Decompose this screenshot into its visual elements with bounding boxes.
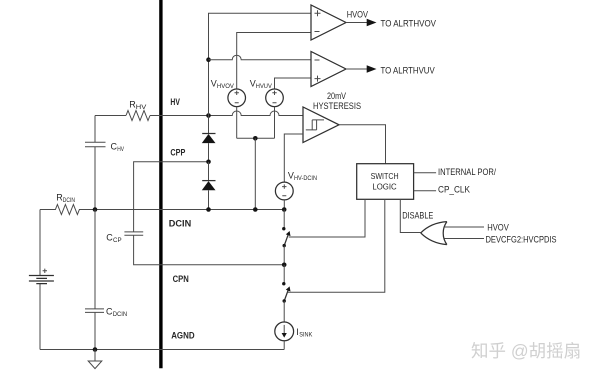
node CPP junction — [206, 160, 211, 165]
node DCIN-left junction — [93, 207, 98, 212]
diode D2 — [208, 162, 210, 181]
battery plus sign — [43, 269, 47, 273]
or-gate U5 — [421, 222, 447, 245]
arrow to ALRTHVUV — [367, 65, 377, 72]
switch S2 — [283, 265, 285, 284]
wire INTERNAL POR output — [414, 172, 437, 174]
resistor RHV — [126, 111, 150, 121]
switch S1 — [283, 210, 285, 229]
wire comp2 plus input — [275, 78, 312, 89]
voltage source VHVUV — [266, 89, 284, 107]
wire AGND rail — [40, 349, 284, 351]
node connector DCIN junction — [253, 207, 258, 212]
wire switch2 control — [288, 199, 385, 292]
node DCIN diode junction — [206, 207, 211, 212]
capacitor CDCIN — [85, 210, 104, 350]
svg-text:HVUV: HVUV — [256, 83, 273, 90]
svg-text:DCIN: DCIN — [169, 219, 192, 230]
wire connector to DCIN — [254, 138, 256, 209]
node CPN junction — [282, 263, 287, 268]
svg-text:DCIN: DCIN — [113, 311, 128, 318]
wire disable — [400, 199, 420, 232]
svg-text:CP_CLK: CP_CLK — [438, 184, 471, 195]
wire VHV-DCIN bottom — [283, 200, 285, 210]
wire hysteresis output — [339, 125, 386, 164]
wire CPP rail — [134, 162, 209, 232]
wire comp1 plus input — [209, 13, 312, 115]
wire ISINK to AGND — [283, 341, 285, 350]
wire comp1 output — [346, 22, 367, 24]
wire CPN rail — [134, 235, 285, 264]
wire VHVOV bottom — [236, 107, 238, 139]
resistor RDCIN — [40, 205, 95, 215]
svg-text:HV: HV — [117, 146, 124, 153]
svg-text:CP: CP — [113, 237, 122, 244]
battery V1 — [39, 210, 41, 350]
wire CP_CLK output — [414, 190, 437, 192]
svg-text:HVOV: HVOV — [217, 83, 235, 90]
svg-text:DEVCFG2:HVCPDIS: DEVCFG2:HVCPDIS — [486, 235, 557, 246]
current source ISINK — [275, 322, 294, 341]
wire V sources connector — [237, 137, 275, 139]
arrow to ALRTHVOV — [367, 19, 377, 26]
op-amp hysteresis comparator U3 — [303, 107, 339, 143]
svg-text:HV: HV — [136, 104, 147, 111]
svg-text:SWITCH: SWITCH — [371, 171, 399, 181]
wire switch1 control — [289, 199, 365, 237]
svg-text:V: V — [288, 170, 294, 180]
capacitor CHV — [85, 116, 106, 210]
wire HV rail — [95, 111, 303, 116]
svg-text:DISABLE: DISABLE — [402, 211, 433, 222]
wire comp1 minus input — [237, 33, 311, 90]
svg-text:HYSTERESIS: HYSTERESIS — [313, 101, 361, 112]
hysteresis glyph — [306, 120, 324, 130]
capacitor CCP — [124, 232, 143, 235]
node AGND junction — [93, 347, 98, 352]
svg-text:TO ALRTHVUV: TO ALRTHVUV — [381, 65, 436, 76]
voltage source VHV-DCIN — [275, 182, 293, 200]
wire VHVUV bottom — [274, 107, 276, 139]
svg-text:LOGIC: LOGIC — [372, 182, 396, 192]
node comp branch junction — [206, 57, 211, 62]
svg-text:HV: HV — [170, 97, 180, 108]
svg-text:知乎 @胡摇扇: 知乎 @胡摇扇 — [471, 341, 581, 361]
svg-text:HVOV: HVOV — [347, 9, 369, 20]
op-amp comparator U1 HVOV — [311, 5, 346, 40]
svg-text:INTERNAL POR/: INTERNAL POR/ — [438, 167, 496, 178]
svg-text:SINK: SINK — [299, 331, 313, 338]
ground — [88, 350, 102, 369]
voltage source VHVOV — [228, 89, 246, 107]
node HV junction — [206, 113, 211, 118]
svg-text:HV-DCIN: HV-DCIN — [294, 175, 317, 182]
wire comp2 minus input with hop — [209, 55, 312, 59]
svg-text:AGND: AGND — [171, 330, 195, 341]
node VHV-DCIN DCIN junction — [282, 207, 287, 212]
diode D1 — [208, 116, 210, 134]
node V connector junction — [253, 136, 258, 141]
svg-text:HVOV: HVOV — [487, 223, 509, 234]
wire or input DEVCFG2 — [445, 238, 485, 240]
svg-text:CPN: CPN — [173, 274, 189, 285]
svg-text:CPP: CPP — [170, 148, 185, 159]
IC boundary bus — [159, 0, 162, 368]
wire DCIN rail — [95, 209, 284, 211]
wire comp2 output — [346, 68, 367, 70]
op-amp comparator U2 HVUV — [311, 52, 346, 87]
wire or input HVOV — [445, 226, 485, 228]
svg-text:TO ALRTHVOV: TO ALRTHVOV — [381, 19, 437, 30]
wire VHV-DCIN top — [284, 134, 303, 182]
svg-text:DCIN: DCIN — [63, 197, 75, 204]
switch logic box U4 — [357, 164, 414, 200]
